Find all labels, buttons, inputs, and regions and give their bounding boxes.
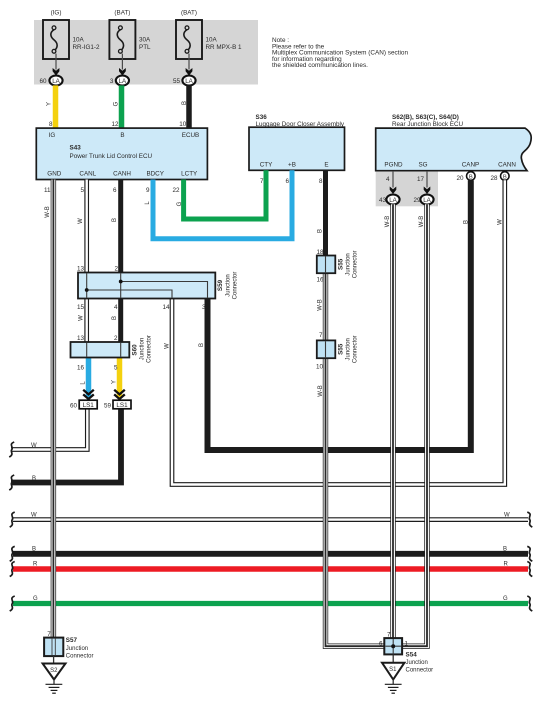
svg-text:B: B bbox=[503, 174, 507, 180]
svg-text:S59: S59 bbox=[217, 279, 224, 291]
svg-text:S54: S54 bbox=[406, 652, 418, 659]
wire black ECUB from 1A-55 to S43 pin 10 bbox=[186, 85, 192, 128]
connector LA pin 29 bbox=[413, 195, 433, 205]
svg-text:B: B bbox=[112, 218, 118, 222]
svg-text:G: G bbox=[114, 101, 120, 106]
svg-text:RR MPX-B 1: RR MPX-B 1 bbox=[206, 44, 243, 51]
svg-text:LA: LA bbox=[389, 197, 397, 204]
wire white-black LA-43 to S54 pin7 bbox=[390, 204, 395, 638]
wire white CANL pin5 to S59 pin13 bbox=[84, 180, 89, 273]
wire red full-width bus bbox=[13, 566, 528, 571]
svg-text:LS1: LS1 bbox=[83, 402, 95, 409]
wire white bus left to LS1-60 bbox=[11, 409, 87, 450]
squiggle left end of B bus bbox=[9, 475, 14, 490]
svg-text:W-B: W-B bbox=[318, 385, 324, 397]
svg-text:Junction: Junction bbox=[346, 338, 352, 360]
node S54 common point bbox=[391, 644, 395, 648]
wire white-black LA-29 to S54 pin1 bbox=[402, 204, 427, 646]
svg-text:60: 60 bbox=[70, 402, 78, 409]
svg-text:G: G bbox=[33, 596, 38, 602]
svg-text:Power Trunk Lid Control ECU: Power Trunk Lid Control ECU bbox=[70, 153, 153, 160]
wire stub PGND pin 4 to connector LA bbox=[390, 171, 397, 194]
S43 bottom pin numbers bbox=[44, 187, 180, 194]
svg-text:PGND: PGND bbox=[384, 162, 403, 169]
wire green full-width bus bbox=[13, 601, 528, 606]
svg-text:1: 1 bbox=[405, 641, 409, 648]
svg-text:CANP: CANP bbox=[462, 162, 480, 169]
svg-text:IG: IG bbox=[49, 132, 56, 139]
svg-text:9: 9 bbox=[146, 187, 150, 194]
svg-text:10A: 10A bbox=[73, 37, 85, 44]
svg-text:B: B bbox=[469, 174, 473, 180]
svg-text:(BAT): (BAT) bbox=[114, 10, 130, 17]
svg-text:G: G bbox=[503, 596, 508, 602]
svg-text:8: 8 bbox=[49, 121, 53, 128]
svg-text:Y: Y bbox=[47, 102, 53, 106]
svg-text:Connector: Connector bbox=[353, 251, 359, 279]
wire white CANL branch S59 pin14 to CANN pin28 bbox=[172, 180, 505, 484]
svg-text:W: W bbox=[504, 513, 510, 519]
svg-text:6: 6 bbox=[113, 187, 117, 194]
svg-text:B: B bbox=[120, 132, 124, 139]
wire stub fuse F2 to connector 1A bbox=[119, 54, 126, 76]
wire green LCTY pin22 to S36 CTY pin7 bbox=[184, 170, 266, 219]
svg-text:S36: S36 bbox=[256, 114, 268, 121]
svg-text:B: B bbox=[32, 546, 36, 552]
svg-text:S62(B), S63(C), S64(D): S62(B), S63(C), S64(D) bbox=[392, 114, 459, 121]
svg-text:3: 3 bbox=[202, 304, 206, 311]
svg-text:4: 4 bbox=[386, 176, 390, 183]
svg-text:7: 7 bbox=[319, 332, 323, 339]
connector 1A pin 60 bbox=[39, 76, 62, 86]
svg-text:Connector: Connector bbox=[147, 335, 153, 363]
junction connector S59 bbox=[78, 272, 239, 300]
junction connector S55 upper bbox=[317, 251, 359, 279]
svg-text:LS1: LS1 bbox=[116, 402, 128, 409]
svg-text:W: W bbox=[165, 343, 171, 349]
wire white-black S55 pin16 to S55 pin7 bbox=[323, 273, 328, 340]
ECU S43 Power Trunk Lid Control ECU bbox=[36, 128, 207, 179]
arrow chevrons to LS1 59 bbox=[114, 390, 125, 399]
ECU S62(B) S63(C) S64(D) Rear Junction Block ECU bbox=[376, 114, 532, 171]
svg-text:Connector: Connector bbox=[353, 335, 359, 363]
svg-text:(BAT): (BAT) bbox=[181, 10, 197, 17]
svg-text:12: 12 bbox=[111, 121, 119, 128]
svg-text:17: 17 bbox=[417, 176, 425, 183]
S62 pin numbers bbox=[386, 175, 498, 183]
squiggles B full bus bbox=[10, 546, 15, 561]
wire black full-width bus bbox=[13, 551, 528, 557]
svg-text:LA: LA bbox=[185, 78, 193, 85]
fuse F1 10A RR-IG1-2 (IG) bbox=[43, 10, 100, 60]
svg-text:ECUB: ECUB bbox=[182, 132, 200, 139]
svg-text:5: 5 bbox=[114, 365, 118, 372]
svg-text:Connector: Connector bbox=[66, 653, 94, 659]
svg-text:B: B bbox=[503, 546, 507, 552]
fuse F3 10A RR MPX-B 1 (BAT) bbox=[176, 10, 242, 60]
svg-text:W-B: W-B bbox=[45, 206, 51, 218]
svg-text:S60: S60 bbox=[132, 344, 139, 356]
svg-text:CANL: CANL bbox=[79, 171, 96, 178]
svg-text:Connector: Connector bbox=[406, 668, 434, 674]
svg-text:11: 11 bbox=[44, 187, 51, 194]
svg-text:16: 16 bbox=[316, 277, 324, 284]
svg-text:W-B: W-B bbox=[318, 299, 324, 311]
svg-text:10: 10 bbox=[316, 364, 324, 371]
wire white full-width bus bbox=[13, 517, 528, 522]
svg-text:59: 59 bbox=[104, 402, 112, 409]
svg-text:the shielded communication lin: the shielded communication lines. bbox=[272, 62, 368, 69]
svg-text:(IG): (IG) bbox=[51, 10, 62, 17]
connector 1A pin 3 bbox=[110, 76, 129, 86]
svg-text:6: 6 bbox=[379, 641, 383, 648]
S59 internal link pin2 to pin3 bbox=[121, 282, 208, 298]
svg-text:2: 2 bbox=[114, 266, 118, 273]
svg-text:BDCY: BDCY bbox=[146, 171, 164, 178]
svg-text:Junction: Junction bbox=[346, 253, 352, 275]
svg-text:CANN: CANN bbox=[498, 162, 516, 169]
svg-text:S43: S43 bbox=[70, 145, 82, 152]
shielded connector circle B at CANN pin 28 bbox=[501, 172, 510, 181]
wire black CANH branch S59 pin3 to CANP pin20 bbox=[208, 180, 471, 450]
svg-text:B: B bbox=[464, 220, 470, 224]
wire black bus left to LS1-59 bbox=[11, 409, 121, 483]
shielded connector circle B at CANP pin 20 bbox=[467, 172, 476, 181]
svg-text:RR-IG1-2: RR-IG1-2 bbox=[73, 44, 100, 51]
wire black CANH pin6 to S59 pin2 bbox=[118, 180, 123, 273]
wire color labels rotated bbox=[45, 101, 504, 397]
svg-text:Y: Y bbox=[112, 380, 118, 384]
svg-text:4: 4 bbox=[114, 304, 118, 311]
wire green B from 1A-3 to S43 pin 12 bbox=[119, 85, 125, 128]
svg-text:R: R bbox=[33, 562, 38, 568]
fuse F2 30A PTL (BAT) bbox=[109, 10, 151, 60]
S36 Luggage Door Closer Assembly bbox=[249, 114, 345, 170]
connector LS1 pin 60 bbox=[70, 400, 97, 409]
svg-text:+B: +B bbox=[288, 162, 296, 169]
svg-text:W: W bbox=[31, 513, 37, 519]
svg-text:B: B bbox=[199, 343, 205, 347]
squiggle left end of W bus bbox=[9, 442, 14, 457]
svg-text:B: B bbox=[32, 476, 36, 482]
S36 pin numbers bbox=[260, 178, 323, 185]
fuse block gray band bbox=[34, 20, 258, 85]
svg-text:B: B bbox=[112, 316, 118, 320]
svg-text:55: 55 bbox=[173, 78, 181, 85]
svg-text:W-B: W-B bbox=[385, 216, 391, 228]
S60 pin numbers bbox=[77, 335, 118, 372]
svg-text:S1: S1 bbox=[389, 667, 397, 673]
S59 pin numbers bbox=[77, 266, 206, 312]
svg-text:CTY: CTY bbox=[260, 162, 273, 169]
svg-text:Junction: Junction bbox=[406, 660, 428, 666]
svg-text:13: 13 bbox=[77, 266, 85, 273]
svg-text:43: 43 bbox=[379, 197, 387, 204]
S55 upper pin numbers bbox=[316, 249, 324, 284]
wire black S36 E pin8 to S55 pin18 bbox=[323, 170, 328, 255]
svg-text:13: 13 bbox=[77, 335, 85, 342]
svg-text:GND: GND bbox=[47, 171, 61, 178]
junction connector S54 bbox=[379, 632, 433, 674]
svg-text:28: 28 bbox=[490, 175, 498, 182]
svg-text:W: W bbox=[498, 219, 504, 225]
svg-text:6: 6 bbox=[285, 178, 289, 185]
junction connector S60 bbox=[71, 335, 153, 363]
svg-text:LA: LA bbox=[423, 197, 431, 204]
gray band below PGND/SG of rear junction block bbox=[376, 171, 438, 207]
wire yellow S60 pin5 to LS1 bbox=[117, 358, 123, 398]
svg-text:W: W bbox=[78, 218, 84, 224]
svg-text:Rear Junction Block ECU: Rear Junction Block ECU bbox=[392, 121, 463, 128]
squiggles W full bus bbox=[10, 512, 15, 527]
svg-text:LCTY: LCTY bbox=[181, 171, 198, 178]
svg-text:10: 10 bbox=[179, 121, 187, 128]
svg-text:LA: LA bbox=[119, 78, 127, 85]
svg-text:Connector: Connector bbox=[233, 272, 239, 300]
connector LS1 pin 59 bbox=[104, 400, 131, 409]
svg-text:5: 5 bbox=[80, 187, 84, 194]
wire black S59 pin4 to S60 pin2 bbox=[118, 299, 123, 343]
connector LA pin 43 bbox=[379, 195, 400, 205]
svg-text:3: 3 bbox=[110, 78, 114, 85]
junction connector S55 lower bbox=[317, 335, 359, 363]
wire white S59 pin15 to S60 pin13 bbox=[84, 299, 89, 343]
wire yellow IG from 1A-60 to S43 pin 8 bbox=[53, 85, 59, 128]
connector 1A pin 55 bbox=[173, 76, 196, 86]
svg-text:14: 14 bbox=[162, 304, 170, 311]
svg-text:22: 22 bbox=[172, 187, 180, 194]
ground S1 below S54 bbox=[382, 654, 404, 693]
svg-text:8: 8 bbox=[319, 178, 323, 185]
svg-text:W: W bbox=[79, 315, 85, 321]
svg-text:7: 7 bbox=[260, 178, 264, 185]
svg-text:Junction: Junction bbox=[66, 646, 88, 652]
S59 internal link pin13 to pin14 bbox=[87, 290, 172, 298]
svg-text:S57: S57 bbox=[66, 637, 78, 644]
wire stub fuse F3 to connector 1A bbox=[186, 54, 193, 76]
svg-text:60: 60 bbox=[39, 78, 47, 85]
squiggles G full bus bbox=[10, 596, 15, 611]
svg-text:G: G bbox=[177, 201, 183, 206]
bus end labels bbox=[31, 443, 510, 602]
svg-text:W-B: W-B bbox=[419, 216, 425, 228]
wire light-blue S60 pin16 to LS1 bbox=[86, 358, 92, 398]
svg-text:E: E bbox=[324, 162, 328, 169]
svg-text:S55: S55 bbox=[338, 258, 345, 270]
ground S2 below S57 bbox=[43, 656, 66, 693]
S55 lower pin numbers bbox=[316, 332, 324, 371]
wire stub fuse F1 to connector 1A bbox=[53, 54, 60, 76]
svg-text:SG: SG bbox=[418, 162, 427, 169]
svg-text:B: B bbox=[182, 101, 188, 105]
svg-text:R: R bbox=[504, 562, 509, 568]
wire white-black GND pin11 to S57 bbox=[51, 180, 56, 638]
svg-text:30A: 30A bbox=[139, 37, 151, 44]
S43 top pin numbers bbox=[49, 121, 187, 128]
svg-text:15: 15 bbox=[77, 304, 85, 311]
svg-text:2: 2 bbox=[114, 335, 118, 342]
svg-text:PTL: PTL bbox=[139, 44, 151, 51]
svg-text:LA: LA bbox=[52, 78, 60, 85]
arrow chevrons to LS1 60 bbox=[83, 390, 94, 399]
svg-text:W: W bbox=[31, 443, 37, 449]
svg-text:16: 16 bbox=[77, 365, 85, 372]
wire light-blue BDCY pin9 to S36 +B pin6 bbox=[153, 170, 292, 238]
svg-text:CANH: CANH bbox=[113, 171, 131, 178]
wire stub SG pin 17 to connector LA bbox=[424, 171, 431, 194]
svg-text:10A: 10A bbox=[206, 37, 218, 44]
svg-text:Junction: Junction bbox=[140, 338, 146, 360]
junction connector S57 bbox=[44, 631, 93, 660]
squiggles R full bus bbox=[10, 562, 15, 577]
wire white-black S55 pin10 to S54 pin6 bbox=[326, 358, 385, 646]
svg-text:Junction: Junction bbox=[226, 274, 232, 296]
svg-text:S2: S2 bbox=[50, 668, 58, 674]
svg-text:B: B bbox=[318, 229, 324, 233]
note text about CAN shielded lines bbox=[272, 37, 408, 69]
svg-text:18: 18 bbox=[316, 249, 324, 256]
svg-text:S55: S55 bbox=[338, 343, 345, 355]
svg-text:20: 20 bbox=[456, 175, 464, 182]
